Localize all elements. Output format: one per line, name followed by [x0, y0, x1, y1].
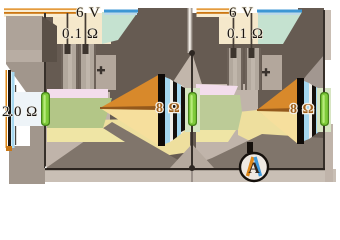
cream glow behind right battery labels: [219, 13, 271, 44]
battery left: terminal leads: [67, 13, 69, 44]
left loop: dark bottom triangle: [46, 122, 192, 168]
battery right: terminal leads: [233, 13, 235, 48]
svg-text:6 V: 6 V: [76, 5, 101, 21]
top wire right loop: orange double line: [197, 9, 230, 10]
left speaker cone: bottom half: [100, 108, 160, 146]
pale green behind right pill: [317, 88, 331, 132]
right speaker cone: mid line: [257, 108, 298, 112]
left loop interior dark shadow: [45, 13, 192, 169]
3D box: lighter bottom strip: [6, 50, 42, 62]
right speaker cone: bottom half: [257, 110, 298, 144]
shadow: right outside light strip: [325, 124, 333, 182]
resistor pill left (2 ohm): [41, 92, 50, 126]
battery right: plus sign: [262, 71, 270, 73]
right loop interior dark shadow: [192, 13, 324, 169]
top wire left loop: orange double line: [4, 9, 78, 10]
3D box (battery shadow) top-left: front face: [6, 16, 42, 57]
right loop: light region around beam: [196, 84, 258, 162]
left label background: [14, 92, 44, 126]
svg-text:6 V: 6 V: [229, 5, 254, 21]
right resistor beam: green band: [196, 95, 242, 130]
battery left: plus sign: [97, 69, 105, 71]
junction dot top middle: [189, 50, 195, 56]
cream glow behind left battery labels: [53, 13, 111, 44]
left speaker stripes: [165, 77, 170, 144]
ammeter top stub: [247, 142, 253, 153]
dark top edge strip right loop: [298, 8, 324, 14]
orange tip at bottom of outer wire: [6, 146, 12, 151]
top wire left loop: blue segment: [104, 10, 138, 13]
battery right: cell 2 cap: [249, 48, 255, 58]
right speaker stripes: [304, 81, 309, 141]
left loop: light V under top dot: [163, 53, 206, 97]
left speaker cone: top half: [100, 74, 160, 108]
middle wire lower part: [191, 53, 193, 168]
shadow: bottom-left medium block: [9, 146, 45, 184]
shadow: right outside light strip upper: [325, 10, 332, 60]
right wire stubs over pale green: [323, 86, 325, 93]
middle wire upper light tube: [187, 8, 192, 53]
dark top edge strip left loop: [138, 8, 192, 14]
svg-text:0.1 Ω: 0.1 Ω: [62, 26, 99, 42]
cream band under top-right orange wire: [197, 8, 231, 17]
left resistor beam: yellow band: [47, 128, 125, 142]
left resistor beam: pink band: [47, 89, 108, 98]
shadow: bottom light band: [10, 169, 336, 182]
battery left: cell 2 cap: [83, 44, 89, 54]
battery left: cell 1 cap: [65, 44, 71, 54]
mint trapezoid left loop: [102, 12, 138, 44]
corner highlight left: [45, 167, 47, 169]
svg-text:8 Ω: 8 Ω: [156, 101, 181, 116]
left loop: light right of battery: [96, 55, 116, 90]
left speaker cone: mid line: [100, 106, 160, 110]
junction dot bottom middle: [189, 165, 195, 171]
shadow: left outside strip beside label: [30, 120, 45, 148]
3D box: dark side face: [42, 16, 57, 62]
right speaker cone: top half: [257, 78, 298, 110]
svg-text:8 Ω: 8 Ω: [290, 102, 315, 117]
left border wire (inner, x45): [44, 13, 46, 168]
right loop: dark bottom slab: [196, 134, 324, 168]
svg-text:0.1 Ω: 0.1 Ω: [227, 26, 264, 42]
pale green behind middle pill: [185, 88, 200, 132]
left loop: light lower-left interior: [45, 92, 110, 168]
left resistor beam: green band: [47, 98, 112, 128]
battery right: cell 2: [245, 48, 261, 90]
middle wire gray continuation below bottom wire: [191, 170, 193, 182]
svg-text:2.0 Ω: 2.0 Ω: [2, 104, 38, 120]
right border wire: [323, 10, 325, 168]
ammeter: [240, 153, 268, 181]
right loop: light wedge below top-right corner: [296, 55, 324, 100]
mint trapezoid right loop: [258, 12, 302, 44]
bottom wire: [45, 168, 325, 170]
left loop: yellow glow under cone: [95, 114, 190, 158]
right speaker rim: [297, 78, 304, 144]
shadow: left outside medium region under box: [6, 62, 45, 92]
right loop: yellow glow under cone: [238, 110, 298, 150]
battery right: cell 1 cap: [231, 48, 237, 58]
left outer wire stripes: [6, 70, 8, 148]
middle wire stubs over pale green: [191, 86, 193, 93]
battery left: cell 2: [79, 44, 96, 90]
right loop: light right of battery: [262, 55, 282, 90]
top wire right loop: blue segment: [257, 10, 302, 13]
right resistor beam: yellow band: [196, 130, 236, 142]
right resistor beam: pink band: [196, 84, 238, 95]
resistor pill middle (8 ohm): [188, 92, 197, 126]
left speaker rim: [158, 74, 165, 146]
cream band under top-left orange wire: [4, 8, 79, 17]
battery right: cell 1: [227, 48, 243, 90]
svg-text:A: A: [248, 160, 260, 177]
left loop: light V at bottom dot: [170, 144, 192, 168]
resistor pill right (8 ohm): [320, 92, 329, 126]
battery left: cell 1: [61, 44, 78, 90]
